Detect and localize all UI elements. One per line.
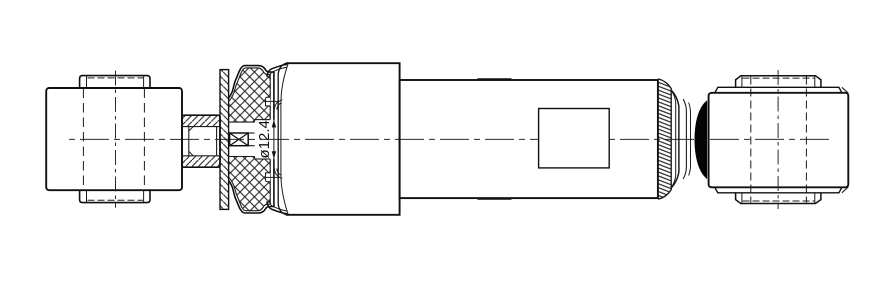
bump stop outer profile bottom — [229, 159, 274, 213]
end neck inner profile — [672, 92, 676, 187]
right bushing hidden line top flange — [743, 77, 815, 79]
bump stop outer profile top — [229, 66, 274, 120]
nut bore chamfer bottom — [189, 151, 193, 155]
nut bore top line — [182, 126, 220, 128]
dust tube rolled corner rings top — [274, 100, 282, 110]
dimension arrow bottom — [272, 151, 276, 159]
rubber buffer ring (black) — [695, 100, 708, 179]
nut section hatch top — [183, 116, 220, 126]
rolled end closure crimp ticks — [658, 78, 673, 200]
right bushing housing corner chamfer bottom — [842, 187, 848, 193]
right bushing bottom retainer washer — [715, 187, 842, 193]
label plate — [539, 109, 610, 168]
piston rod section diagonal 1 — [230, 133, 249, 146]
bump stop bore step upper — [254, 120, 256, 123]
piston rod section diagonal 2 — [230, 133, 249, 146]
nut bore left edge — [188, 127, 190, 156]
right bushing top flange inner edges — [741, 76, 743, 87]
bump stop inner skin top — [229, 68, 271, 120]
right bushing hidden sleeve right — [805, 77, 807, 203]
left bushing hidden sleeve right — [143, 89, 145, 191]
bump stop rubber hatch bottom — [226, 153, 274, 215]
left bushing vertical centerline — [115, 71, 117, 208]
left bushing hidden line bottom flange — [88, 199, 144, 201]
bump stop bore lower left — [229, 156, 255, 158]
nut bore right edge — [216, 127, 218, 156]
end neck contour — [683, 99, 686, 179]
right bushing top flange — [736, 76, 821, 88]
piston rod stub bottom line — [248, 145, 254, 147]
reservoir tube body — [400, 80, 658, 198]
right bushing hidden line bottom flange — [743, 200, 815, 202]
bump stop bore upper left — [229, 121, 255, 123]
right bushing housing — [709, 93, 849, 188]
bump stop ring notch top leader — [266, 100, 280, 102]
left bushing top flange — [80, 76, 150, 88]
left bushing top flange inner edges — [86, 76, 88, 88]
dust tube lip bottom outer — [267, 201, 287, 213]
piston rod stub top line — [248, 132, 254, 134]
left bushing bottom flange inner edges — [86, 190, 88, 202]
dust tube left inner edge — [278, 63, 286, 214]
nut bore bottom line — [182, 155, 220, 157]
bump stop ring notch top — [266, 97, 271, 106]
dust tube lip top outer — [267, 64, 287, 76]
bump stop inner skin bottom — [229, 159, 271, 211]
end neck contour 2 — [689, 103, 691, 176]
dust tube rolled corner rings bottom — [274, 169, 282, 179]
bump stop bore lower right — [255, 158, 271, 160]
dimension arrow top — [272, 120, 276, 128]
bump stop ring notch bottom leader — [266, 176, 280, 178]
piston rod section box — [230, 133, 249, 146]
right bushing hidden sleeve left — [750, 77, 752, 203]
left bushing hidden line top flange — [88, 77, 144, 79]
bump stop bore step lower — [254, 157, 256, 160]
end neck outer profile — [671, 90, 679, 188]
right bushing bottom flange — [736, 193, 821, 204]
right bushing vertical centerline — [777, 70, 779, 209]
right bushing housing corner chamfer top — [842, 87, 848, 93]
main horizontal centerline — [69, 138, 834, 140]
dust tube lip top inner — [269, 67, 287, 78]
nut section hatch bottom — [183, 156, 220, 166]
threaded sleeve nut body — [182, 115, 220, 167]
dust tube shell — [286, 63, 400, 215]
dust tube inner cone — [281, 63, 288, 214]
bump stop bore upper right — [255, 119, 271, 121]
bump stop ring notch bottom — [266, 173, 271, 182]
rolled end closure band boundary — [658, 79, 671, 199]
bump stop rubber hatch top — [226, 63, 274, 125]
left bushing body — [46, 88, 182, 190]
weld seam bottom — [478, 198, 512, 200]
right bushing top retainer washer — [715, 87, 842, 93]
dimension line rod diameter — [273, 112, 275, 186]
left bushing bottom flange — [80, 190, 150, 202]
svg-text:ø12.4: ø12.4 — [256, 120, 273, 158]
nut bore chamfer top — [189, 127, 193, 131]
right bushing bottom flange inner edges — [741, 193, 743, 204]
dust tube lip bottom inner — [269, 200, 287, 211]
cup washer plate — [220, 70, 229, 210]
weld seam top — [478, 78, 512, 80]
left bushing hidden sleeve left — [82, 89, 84, 191]
